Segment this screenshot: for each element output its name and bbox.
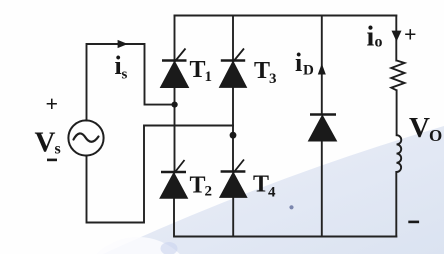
- wire left rail lower (T2 to bottom rail): [173, 198, 175, 236]
- svg-text:T: T: [190, 57, 206, 83]
- wire bottom rail: [175, 236, 397, 238]
- svg-text:i: i: [295, 48, 302, 77]
- background lavender ellipse: [161, 242, 178, 254]
- wire load leg between resistor and inductor: [396, 90, 398, 135]
- wire top rail: [175, 15, 397, 17]
- svg-text:4: 4: [268, 185, 276, 201]
- minus bottom right: [408, 221, 419, 224]
- svg-text:V: V: [35, 127, 56, 159]
- svg-text:T: T: [253, 172, 269, 198]
- io arrow: [392, 31, 402, 42]
- svg-text:o: o: [375, 34, 383, 51]
- resistor R: [391, 61, 404, 91]
- thyristor T4: [220, 160, 247, 198]
- node junction right (T3-T4 midpoint): [230, 132, 237, 139]
- svg-text:T: T: [190, 173, 206, 199]
- background blue swoosh: [103, 126, 444, 254]
- wire source top loop: [87, 44, 175, 121]
- thyristor T1: [161, 49, 189, 88]
- wire diode leg lower: [321, 141, 323, 237]
- svg-text:+: +: [404, 22, 417, 47]
- svg-text:2: 2: [205, 184, 213, 200]
- svg-text:1: 1: [205, 69, 213, 85]
- svg-text:3: 3: [269, 71, 277, 87]
- wire source bottom loop: [87, 126, 234, 223]
- wire right leg upper (top rail to T3): [232, 16, 234, 61]
- background white circle bottom-left: [78, 237, 198, 254]
- inductor L coil: [396, 135, 401, 172]
- svg-text:i: i: [367, 22, 375, 53]
- wire diode leg upper: [321, 16, 323, 115]
- wire load leg upper: [395, 16, 397, 61]
- thyristor T2: [160, 160, 188, 198]
- freewheeling diode D: [309, 115, 337, 142]
- wire right leg lower (T4 to bottom rail): [232, 197, 234, 236]
- wire left rail upper (top rail to T1): [174, 16, 176, 61]
- svg-text:O: O: [429, 126, 442, 145]
- iD arrow: [318, 64, 326, 75]
- is arrow: [118, 40, 128, 48]
- wire left rail middle (T1 to T2): [174, 88, 176, 173]
- AC source VS circle: [68, 120, 103, 155]
- minus near source: [47, 159, 57, 162]
- background small dot: [289, 205, 293, 209]
- svg-text:s: s: [55, 141, 61, 158]
- svg-text:T: T: [254, 58, 270, 84]
- wire load leg lower: [395, 172, 397, 237]
- svg-text:+: +: [46, 91, 59, 116]
- wire right leg middle (T3 to T4): [232, 87, 234, 171]
- AC source sine wave: [74, 133, 99, 141]
- node junction left (T1-T2 midpoint): [172, 102, 178, 108]
- svg-text:V: V: [409, 112, 430, 144]
- svg-text:s: s: [122, 67, 128, 83]
- svg-text:D: D: [303, 63, 314, 79]
- thyristor T3: [220, 49, 247, 88]
